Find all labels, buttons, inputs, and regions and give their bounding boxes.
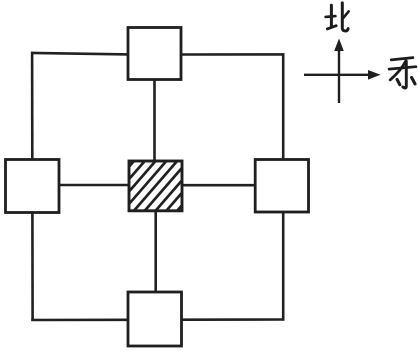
label 东 (east): [389, 58, 416, 88]
wire outer-loop top-left segment: [31, 53, 129, 55]
wire outer-loop bottom segment: [31, 318, 284, 321]
compass east arrow: [304, 70, 381, 80]
label 北 (north): [326, 3, 349, 31]
wire outer-loop top-right segment: [181, 53, 285, 56]
compass north arrow: [334, 39, 344, 104]
wire top-square to center-square: [153, 79, 156, 162]
wire center-square to right-square: [181, 184, 256, 187]
node bottom square: [128, 292, 182, 346]
wire left-square to center-square: [58, 184, 130, 187]
node top square: [128, 28, 181, 80]
node right square: [255, 160, 308, 213]
wire outer-loop left segment: [31, 52, 34, 321]
node left square: [6, 160, 60, 213]
wire outer-loop right segment: [282, 53, 285, 320]
wire center-square to bottom-square: [154, 210, 157, 293]
node center hatched square: [85, 159, 233, 217]
